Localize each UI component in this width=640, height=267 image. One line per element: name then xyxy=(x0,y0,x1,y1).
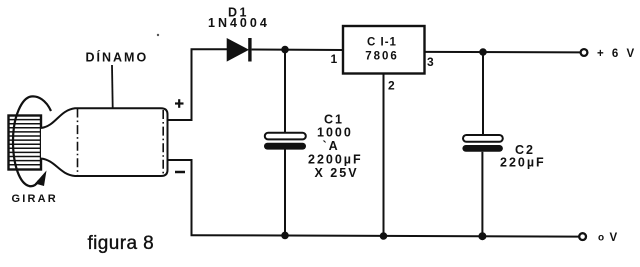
label GIRAR xyxy=(12,193,58,205)
svg-text:220µF: 220µF xyxy=(500,156,546,170)
diode D1 xyxy=(227,38,251,62)
wire regulator pin 2 down to bottom rail xyxy=(383,74,385,236)
wire from regulator pin 3 to +6V terminal xyxy=(425,51,581,54)
op-amp/regulator CI-1 7806 box xyxy=(343,26,425,74)
leader line from DÍNAMO label to dynamo body xyxy=(112,65,113,126)
dynamo body xyxy=(41,108,168,176)
svg-text:V: V xyxy=(610,232,618,244)
pin label 2 xyxy=(388,79,395,93)
rotation arrow around roller xyxy=(13,96,51,186)
0V output terminal xyxy=(579,233,586,240)
svg-text:DÍNAMO: DÍNAMO xyxy=(86,50,149,65)
node junction dot C1 on bottom rail xyxy=(281,232,289,240)
label D1 xyxy=(228,6,249,20)
svg-text:C I-1: C I-1 xyxy=(367,37,397,49)
bottom rail wire xyxy=(191,235,580,236)
svg-text:GIRAR: GIRAR xyxy=(12,193,58,205)
svg-text:o: o xyxy=(598,232,604,243)
pin label 3 xyxy=(427,55,434,69)
label C2 value block xyxy=(500,143,546,170)
+6V output terminal xyxy=(581,49,588,56)
wire from junction down to C2 top plate xyxy=(482,52,484,136)
capacitor C1 plates xyxy=(264,133,306,150)
svg-text:1N4004: 1N4004 xyxy=(208,16,270,30)
wire from dynamo - terminal down to bottom rail xyxy=(169,160,192,235)
svg-text:X 25V: X 25V xyxy=(315,166,359,180)
svg-text:figura 8: figura 8 xyxy=(88,233,155,254)
svg-text:7806: 7806 xyxy=(365,51,399,63)
svg-text:2: 2 xyxy=(388,79,395,93)
svg-text:1000: 1000 xyxy=(317,126,353,140)
wire from C2 bottom plate to bottom rail xyxy=(481,152,483,236)
wire from C1 bottom plate to bottom rail xyxy=(284,150,286,236)
caption figura 8 xyxy=(88,233,155,254)
svg-text:2200µF: 2200µF xyxy=(308,153,363,167)
dynamo roller xyxy=(9,116,42,170)
label o V xyxy=(598,232,618,244)
wire from dynamo + terminal up to diode anode xyxy=(169,49,229,120)
pin label 1 xyxy=(331,52,338,66)
wire from diode cathode to regulator pin 1 xyxy=(252,49,343,52)
label + 6 V xyxy=(597,48,637,60)
node junction dot above C1 xyxy=(281,46,289,54)
wire from junction down to C1 top plate xyxy=(284,50,286,134)
label 1N4004 xyxy=(208,16,270,30)
svg-text:+ 6 V: + 6 V xyxy=(597,48,637,60)
ink speck xyxy=(157,34,159,36)
label DÍNAMO xyxy=(86,50,149,65)
node junction dot pin2 on bottom rail xyxy=(380,232,388,240)
node junction dot above C2 xyxy=(479,48,487,56)
capacitor C2 plates xyxy=(462,135,503,152)
minus terminal mark of dynamo xyxy=(175,171,185,174)
svg-text:C1: C1 xyxy=(324,113,344,127)
svg-text:3: 3 xyxy=(427,55,434,69)
svg-text:1: 1 xyxy=(331,52,338,66)
node junction dot C2 on bottom rail xyxy=(478,232,486,240)
label C1 value block xyxy=(308,113,363,181)
svg-text:`A: `A xyxy=(323,139,340,153)
plus terminal mark of dynamo xyxy=(175,99,184,108)
